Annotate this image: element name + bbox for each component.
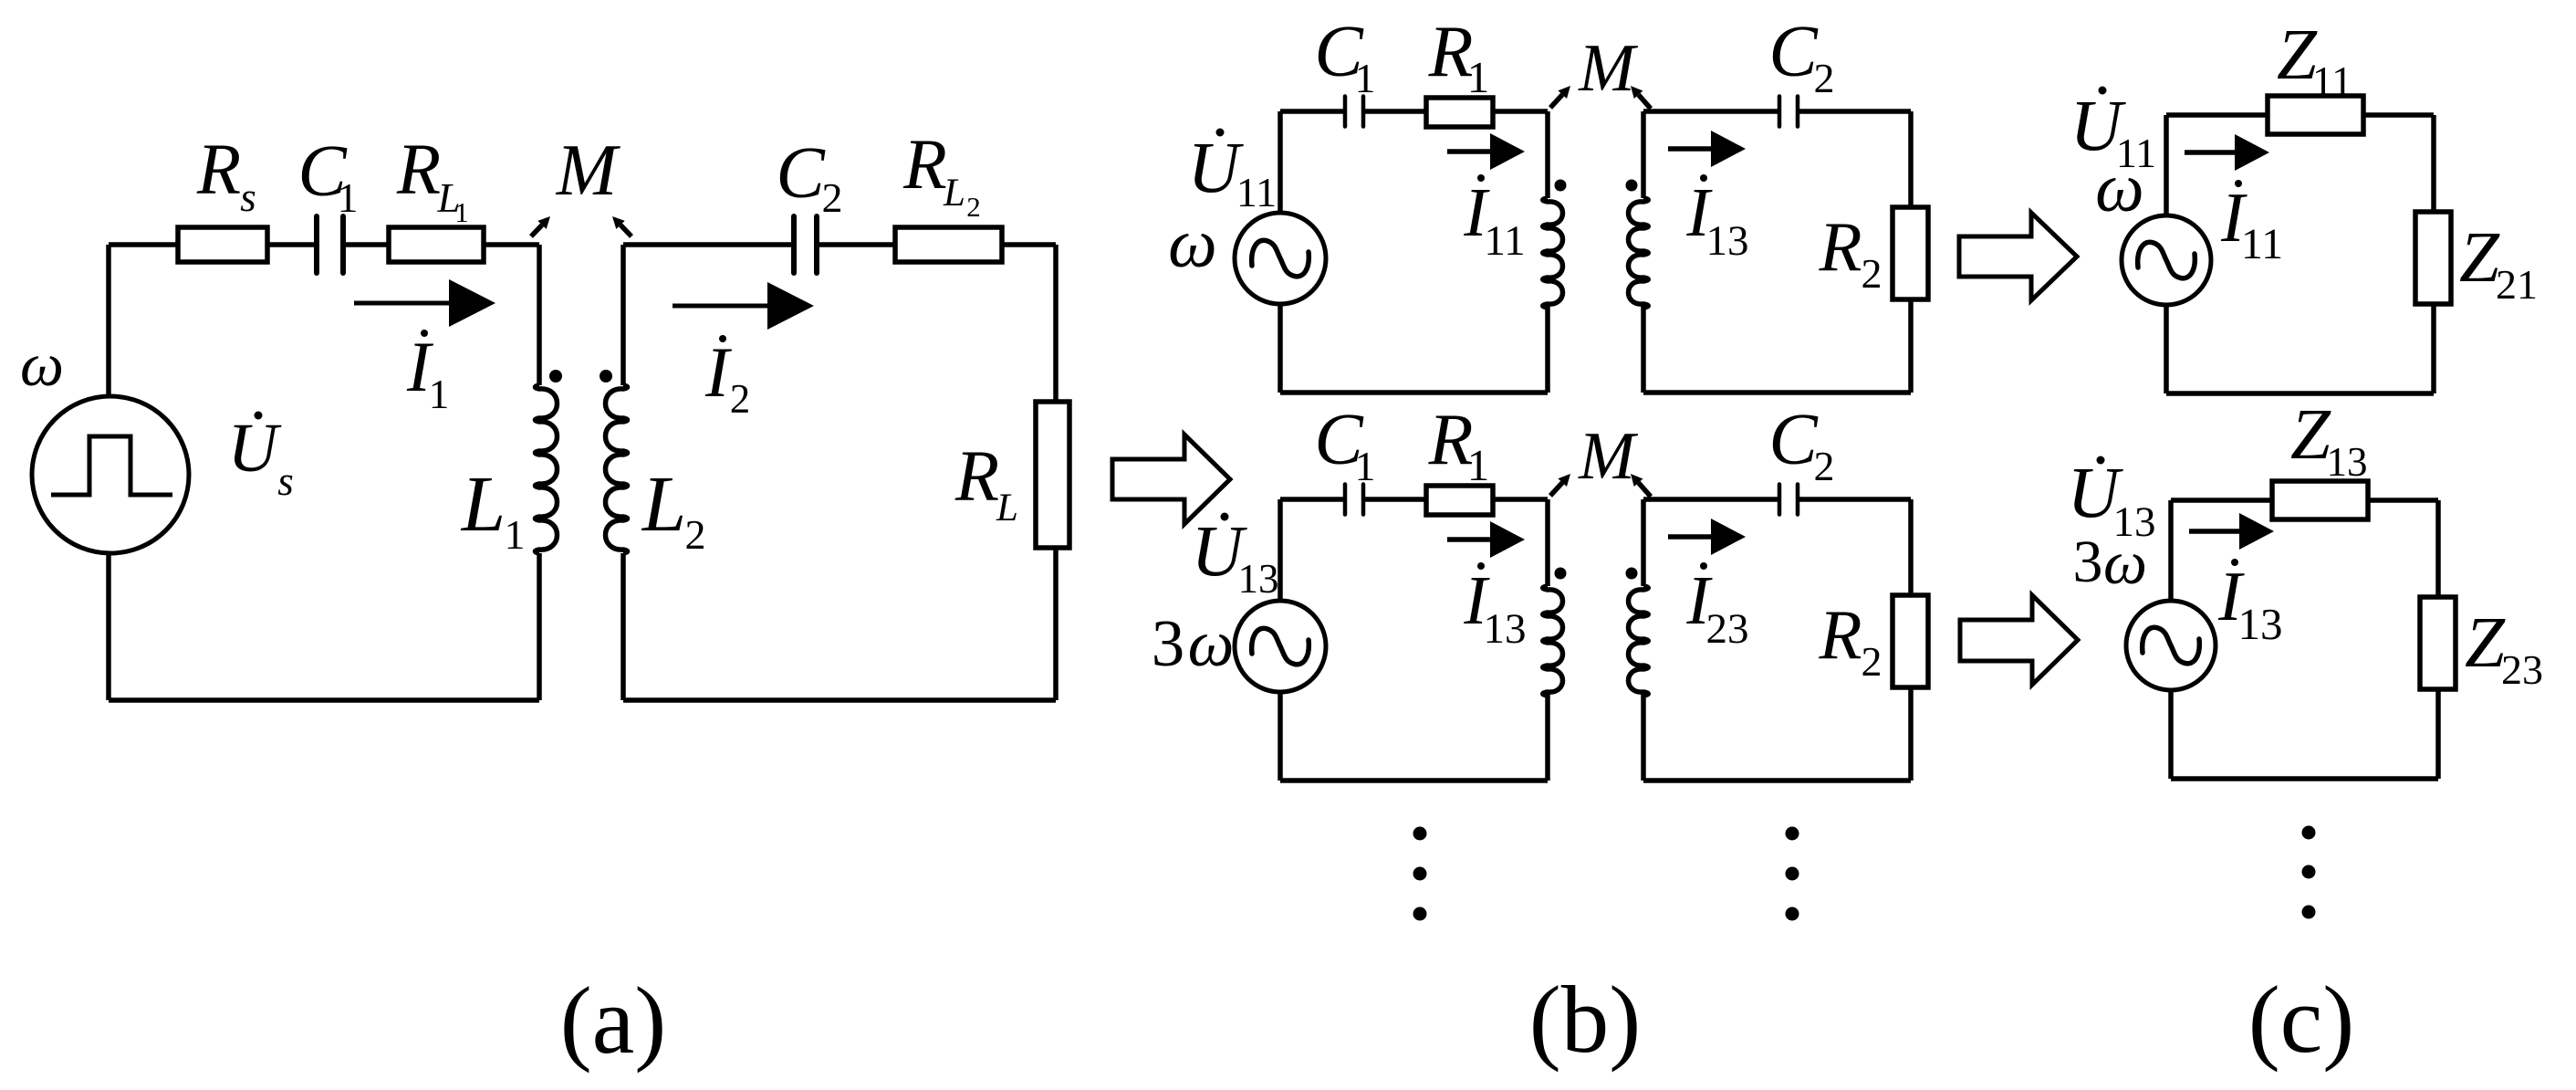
svg-text:13: 13 <box>1238 556 1279 602</box>
svg-text:R: R <box>1818 595 1862 674</box>
svg-text:2: 2 <box>966 191 981 223</box>
svg-text:1: 1 <box>1355 443 1376 489</box>
svg-text:1: 1 <box>1467 440 1490 490</box>
svg-text:11: 11 <box>2312 58 2352 104</box>
svg-text:Z: Z <box>2465 603 2506 683</box>
svg-text:R: R <box>196 131 241 210</box>
svg-text:2: 2 <box>1862 250 1882 297</box>
svg-text:2: 2 <box>730 376 751 422</box>
svg-text:R: R <box>902 124 947 204</box>
svg-text:ω: ω <box>1188 607 1235 680</box>
svg-text:L: L <box>460 459 506 548</box>
svg-text:ω: ω <box>20 330 64 399</box>
svg-text:(a): (a) <box>560 967 667 1074</box>
svg-text:23: 23 <box>2501 646 2543 693</box>
svg-text:1: 1 <box>1355 55 1376 101</box>
svg-text:ω: ω <box>2095 150 2144 226</box>
svg-text:1: 1 <box>429 372 450 417</box>
svg-text:13: 13 <box>2327 439 2368 485</box>
svg-text:2: 2 <box>1814 55 1835 101</box>
svg-text:23: 23 <box>1706 605 1749 653</box>
svg-text:C: C <box>1768 400 1819 480</box>
svg-text:1: 1 <box>454 196 469 228</box>
svg-text:(b): (b) <box>1529 966 1641 1073</box>
svg-text:1: 1 <box>1467 52 1490 102</box>
svg-text:2: 2 <box>685 511 706 558</box>
svg-text:C: C <box>776 133 826 214</box>
svg-text:13: 13 <box>1706 217 1749 265</box>
svg-text:1: 1 <box>338 174 359 221</box>
svg-text:11: 11 <box>1484 217 1525 265</box>
svg-text:2: 2 <box>1862 638 1882 685</box>
svg-text:ω: ω <box>1168 205 1217 282</box>
svg-text:R: R <box>954 437 999 517</box>
svg-text:3: 3 <box>1152 606 1185 680</box>
svg-text:Z: Z <box>2290 395 2331 475</box>
svg-text:I: I <box>704 332 733 412</box>
svg-text:L: L <box>996 487 1018 529</box>
svg-text:M: M <box>1578 419 1639 494</box>
svg-text:R: R <box>396 131 441 210</box>
svg-text:2: 2 <box>822 174 843 221</box>
svg-text:11: 11 <box>2241 220 2283 268</box>
svg-text:21: 21 <box>2496 261 2538 308</box>
svg-text:13: 13 <box>1484 605 1527 653</box>
svg-text:L: L <box>641 459 686 548</box>
svg-text:L: L <box>943 172 965 215</box>
svg-text:M: M <box>556 131 621 211</box>
svg-text:ω: ω <box>2103 528 2147 597</box>
svg-text:s: s <box>240 174 256 220</box>
svg-text:s: s <box>277 458 294 504</box>
svg-text:C: C <box>1768 12 1819 92</box>
svg-text:11: 11 <box>1236 169 1277 215</box>
svg-text:1: 1 <box>505 511 526 558</box>
svg-text:M: M <box>1578 31 1639 106</box>
svg-text:13: 13 <box>2238 599 2283 649</box>
svg-text:3: 3 <box>2073 529 2103 595</box>
svg-text:R: R <box>1818 207 1862 286</box>
svg-text:U: U <box>228 410 282 487</box>
svg-text:(c): (c) <box>2248 966 2355 1073</box>
svg-text:Z: Z <box>2459 218 2500 298</box>
svg-text:2: 2 <box>1814 443 1835 489</box>
